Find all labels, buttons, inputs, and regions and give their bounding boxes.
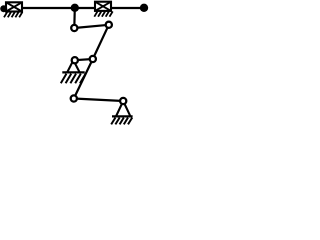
wire: vertical link J1 to C1: [73, 8, 76, 28]
ground: slider block S2 with cross: [95, 2, 111, 11]
node: filled end joint left: [0, 5, 7, 12]
node: filled end joint right: [140, 4, 148, 12]
node: pin joint C: [71, 95, 77, 101]
wire: link B to C: [74, 59, 93, 99]
ground: slider block S1 with cross: [6, 2, 22, 11]
ground: hatching under A: [61, 74, 86, 84]
node: pin joint A: [72, 57, 78, 63]
node: filled joint J1: [71, 4, 79, 12]
node: pin joint B: [90, 56, 96, 62]
wire: fixed horizontal bar: [3, 7, 144, 9]
wire: link C2 to B: [93, 25, 109, 59]
ground: hatching under D: [111, 118, 132, 125]
ground: base line D: [112, 115, 133, 117]
node: pin joint C2: [106, 22, 112, 28]
node: pin joint D: [120, 98, 126, 104]
wire: link C1 to C2: [74, 25, 109, 28]
ground: hatching under S2: [94, 11, 112, 16]
ground: pivot support triangle A: [67, 60, 79, 72]
wire: link A to B: [75, 59, 93, 60]
ground: hatching under S1: [4, 12, 22, 17]
wire: link C to D: [74, 99, 123, 102]
ground: pivot support triangle D: [116, 101, 130, 116]
ground: base line A: [62, 71, 84, 73]
node: pin joint C1: [71, 25, 77, 31]
